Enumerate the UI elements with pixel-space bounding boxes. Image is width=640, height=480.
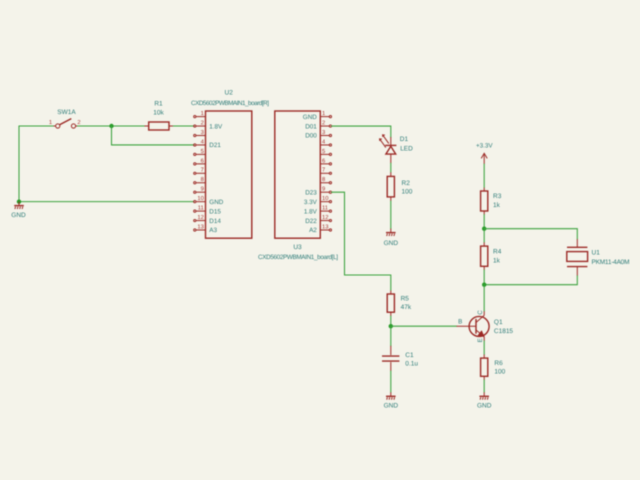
switch SW1A [49,109,81,128]
svg-text:C1815: C1815 [494,328,514,335]
resistor R1 [145,100,174,130]
wire U1 bottom to node2 [484,276,577,285]
wire GND to U2 pin10 [19,201,194,203]
svg-text:2: 2 [77,119,80,126]
svg-text:SW1A: SW1A [57,109,76,116]
U2 pin 2 [194,119,223,130]
svg-text:R4: R4 [493,249,502,256]
svg-text:100: 100 [494,369,505,376]
wire D1 to R2 [390,163,392,172]
svg-text:D15: D15 [209,208,221,215]
U2 pin 4 [194,139,222,149]
resistor R5 [387,291,412,316]
wire R2 to GND B [390,201,392,229]
IC U3 [258,111,338,261]
piezo U1 [567,239,630,276]
wire switch to R1 [78,125,145,127]
wire net GND left vertical [18,126,20,202]
svg-text:3: 3 [322,129,325,136]
U2 pin 1 [194,111,206,118]
svg-text:D14: D14 [209,218,221,225]
IC U2 [191,90,269,239]
svg-text:D01: D01 [305,123,317,130]
svg-text:PKM11-4A0M: PKM11-4A0M [592,259,630,266]
svg-text:D1: D1 [400,136,409,143]
svg-text:6: 6 [201,157,204,164]
wire base node down to C1 [390,326,392,346]
ground GND D [477,392,492,409]
wire to switch pin1 [19,125,54,127]
svg-text:12: 12 [197,214,203,221]
resistor R2 [387,172,413,201]
U2 pin 3 [194,129,206,137]
U3 pin 2 [305,119,331,130]
svg-text:2: 2 [201,119,204,126]
junction node1 [482,227,486,231]
U3 pin 10 [304,195,332,206]
svg-text:A3: A3 [209,227,217,234]
ground GND C [384,392,399,409]
U3 pin 5 [320,149,331,156]
wire node1 to R4 [483,229,485,243]
U2 pin 11 [194,206,222,216]
U3 pin 11 [304,206,332,216]
wire R3 to node1 [483,215,485,229]
wire node1 to U1 top [484,229,577,239]
ground GND B [384,229,399,247]
U3 pin 3 [305,129,331,140]
U3 pin 12 [305,214,331,225]
svg-text:13: 13 [322,223,328,230]
U2 pin 13 [194,223,218,234]
svg-text:GND: GND [209,199,223,206]
resistor R3 [481,188,502,215]
wire junction down to pin4 [112,126,195,145]
svg-text:U2: U2 [225,90,234,97]
svg-text:1: 1 [49,120,52,126]
svg-text:3: 3 [201,129,204,136]
U2 pin 12 [194,214,222,225]
U2 pin 8 [194,176,206,184]
U3 pin 13 [309,223,331,234]
resistor R6 [481,355,506,380]
svg-text:11: 11 [198,206,204,212]
wire R5 to base node [390,316,392,326]
svg-text:D21: D21 [209,142,221,149]
wire R4 to node2 [483,270,485,285]
svg-text:5: 5 [322,149,325,155]
svg-text:0.1u: 0.1u [405,360,418,367]
svg-text:12: 12 [322,214,328,221]
svg-text:GND: GND [384,403,399,410]
svg-text:7: 7 [201,168,204,174]
svg-text:C: C [477,310,484,315]
svg-text:R2: R2 [402,180,411,187]
U3 pin 8 [320,176,331,184]
svg-text:8: 8 [201,176,204,183]
wire +3.3V to R3 [483,164,485,188]
svg-text:3.3V: 3.3V [304,199,318,206]
svg-text:GND: GND [477,403,492,410]
junction base node [389,324,393,328]
wire base node to Q1 base [391,325,457,327]
svg-text:GND: GND [11,212,26,219]
wire C1 to GND C [390,371,392,392]
U2 pin 6 [194,157,206,165]
svg-text:9: 9 [322,186,325,193]
svg-text:D22: D22 [305,218,317,225]
svg-text:C1: C1 [405,352,414,359]
svg-text:1: 1 [201,111,204,117]
U3 pin 7 [320,168,331,175]
svg-text:A2: A2 [309,227,317,234]
svg-text:11: 11 [322,206,328,212]
svg-text:8: 8 [322,176,325,183]
svg-text:10: 10 [322,195,328,202]
wire R1 to U2 pin2 [173,125,194,127]
svg-text:6: 6 [322,157,325,164]
resistor R4 [481,242,502,270]
svg-text:CXD5602PWBMAIN1_board[R]: CXD5602PWBMAIN1_board[R] [191,100,269,107]
LED D1 [380,135,414,163]
svg-text:GND: GND [384,240,399,247]
svg-text:1.8V: 1.8V [209,123,223,130]
U3 pin 4 [320,139,331,146]
U3 pin 1 [303,111,332,121]
U2 pin 10 [194,195,224,206]
svg-text:10: 10 [197,195,203,202]
svg-text:+3.3V: +3.3V [476,143,493,150]
svg-text:GND: GND [303,114,317,121]
svg-text:100: 100 [402,189,413,196]
U2 pin 5 [194,149,206,156]
svg-text:R5: R5 [401,296,410,303]
svg-text:B: B [458,318,462,325]
wire U3 pin9 to R5 [332,192,391,290]
wire Q1 emitter to R6 [483,341,485,355]
U2 pin 7 [194,168,206,175]
wire node2 to Q1 collector [483,285,485,312]
svg-text:R3: R3 [493,193,502,200]
svg-text:U3: U3 [293,244,302,251]
wire R6 to GND D [483,380,485,392]
junction at GND node [17,199,21,203]
svg-text:U1: U1 [592,250,601,257]
ground GND A [11,202,26,219]
svg-text:R1: R1 [154,100,163,107]
svg-text:1.8V: 1.8V [304,208,318,215]
svg-text:1k: 1k [493,258,501,265]
power +3.3V [476,143,493,165]
junction node2 [482,283,486,287]
svg-text:1k: 1k [493,202,501,209]
svg-text:LED: LED [400,146,413,153]
svg-text:D00: D00 [305,133,317,140]
svg-text:10k: 10k [153,110,164,117]
junction after switch [109,124,113,128]
capacitor C1 [382,346,418,371]
svg-text:7: 7 [322,168,325,174]
svg-text:13: 13 [197,223,203,230]
svg-text:1: 1 [322,111,325,117]
U3 pin 6 [320,157,331,165]
wire U3 pin2 to LED D1 [332,126,391,137]
svg-text:9: 9 [201,186,204,193]
svg-text:D23: D23 [305,189,317,196]
svg-text:Q1: Q1 [494,319,503,326]
svg-text:E: E [477,338,484,342]
svg-text:2: 2 [322,119,325,126]
svg-text:R6: R6 [494,360,503,367]
svg-text:CXD5602PWBMAIN1_board[L]: CXD5602PWBMAIN1_board[L] [258,254,338,261]
U2 pin 9 [194,186,206,194]
U3 pin 9 [305,186,331,197]
svg-text:47k: 47k [401,304,412,311]
svg-text:5: 5 [201,149,204,155]
transistor Q1 [457,310,514,343]
